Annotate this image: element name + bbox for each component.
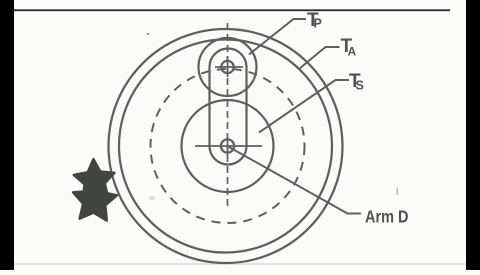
- svg-text:P: P: [314, 17, 322, 31]
- svg-text:S: S: [356, 79, 364, 93]
- svg-text:A: A: [348, 45, 357, 59]
- svg-text:Arm D: Arm D: [365, 207, 409, 227]
